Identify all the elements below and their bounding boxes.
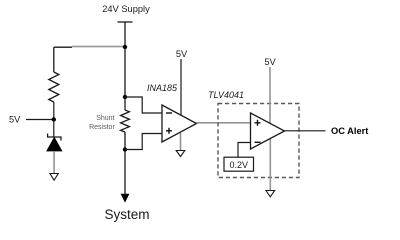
svg-text:TLV4041: TLV4041: [208, 90, 244, 100]
wire: horizontal from rail to left branch (black part): [54, 46, 72, 48]
reference source 0.2V box: [224, 157, 254, 171]
zener diode (cathode up): [47, 134, 62, 152]
node junction: shunt top: [123, 95, 127, 99]
svg-text:5V: 5V: [176, 49, 188, 59]
wire: 5V stub to node: [26, 119, 54, 121]
wire: resistor to 5V node: [53, 102, 55, 120]
wire: node down to zener cathode: [53, 120, 55, 138]
resistor (left pull-up): [49, 72, 59, 102]
wire: INA185 ground stem: [180, 133, 182, 151]
ground (INA185): [176, 151, 185, 157]
wire: 5V to INA185 top: [180, 59, 182, 116]
wire: left branch vertical down to resistor: [53, 47, 55, 72]
shunt resistor zigzag: [121, 110, 130, 132]
op-amp INA185: [162, 105, 197, 142]
ground (left branch): [50, 174, 58, 181]
wire: 24V supply vertical main rail: [124, 22, 126, 110]
comparator TLV4041: [251, 113, 285, 149]
wire: zener anode to ground: [53, 151, 55, 174]
wire: 0.2V reference to inverting input: [238, 143, 251, 158]
arrow to System: [121, 194, 130, 203]
svg-text:Resistor: Resistor: [89, 124, 115, 131]
wire: TLV4041 output: [285, 130, 326, 132]
ground (TLV4041): [266, 191, 275, 197]
svg-text:System: System: [104, 207, 149, 222]
svg-text:0.2V: 0.2V: [229, 160, 248, 170]
wire: 5V to TLV4041 top: [269, 67, 271, 124]
node junction 5V / zener: [52, 117, 56, 121]
svg-text:INA185: INA185: [147, 83, 178, 93]
svg-text:OC Alert: OC Alert: [331, 126, 368, 136]
wire: INA185 output to TLV4041 + input: [197, 122, 251, 124]
svg-text:Shunt: Shunt: [96, 115, 114, 122]
wire: main rail below shunt: [124, 132, 126, 194]
dashed box TLV4041: [218, 104, 299, 178]
svg-text:5V: 5V: [9, 115, 21, 125]
node junction: shunt bottom: [123, 147, 127, 151]
svg-text:24V Supply: 24V Supply: [102, 4, 150, 14]
wire: shunt bottom to INA185 non-inverting input: [125, 134, 162, 150]
node junction on rail at tap: [123, 45, 127, 49]
wire: TLV4041 ground stem: [269, 138, 271, 191]
wire: shunt top to INA185 inverting input: [125, 97, 162, 113]
supply terminal bar: [118, 21, 133, 23]
svg-text:5V: 5V: [264, 57, 276, 67]
wire: horizontal from rail to left branch (gray part): [72, 46, 125, 48]
